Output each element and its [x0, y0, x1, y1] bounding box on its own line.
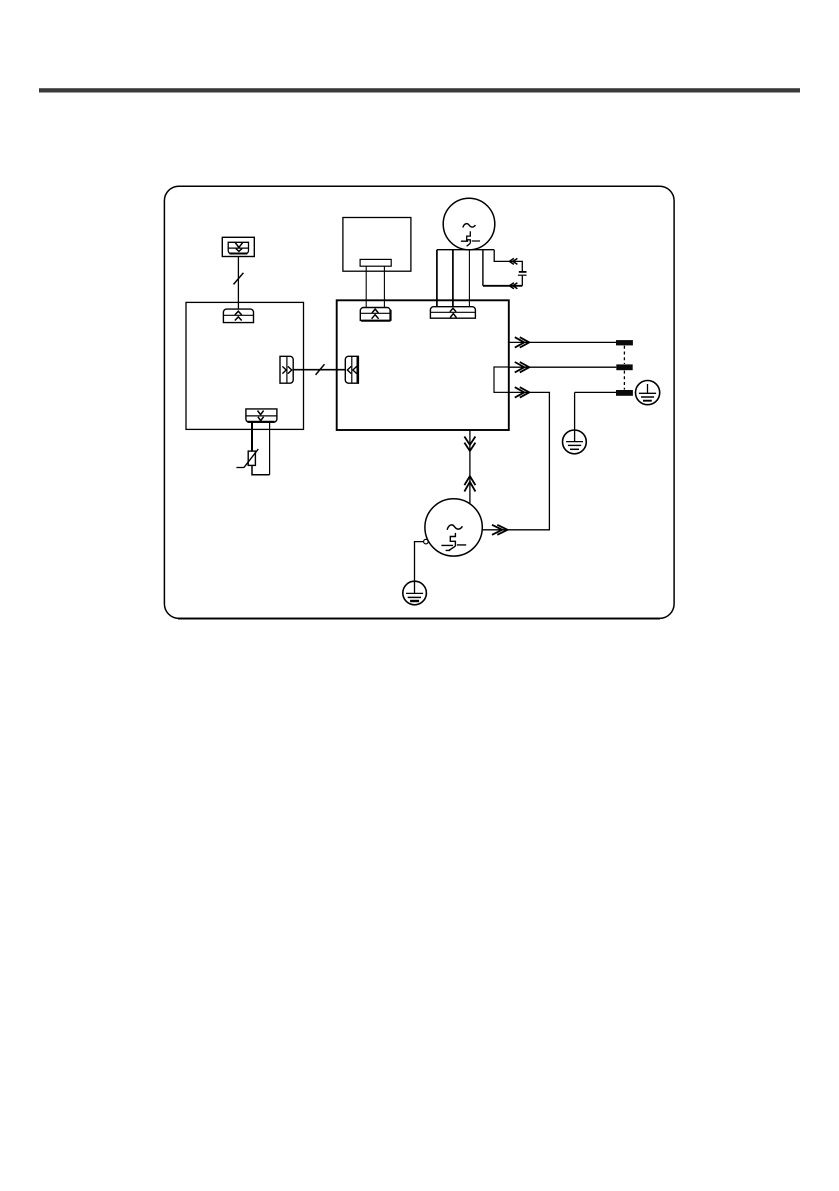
connector CN-B (indoor unit top) — [223, 309, 253, 323]
connector arrows L2 — [515, 362, 530, 372]
display unit box — [343, 218, 411, 272]
connector CN-E (indoor unit right) — [280, 356, 293, 383]
cable break slash — [234, 273, 244, 285]
fan motor M2 — [425, 499, 482, 556]
connector arrows cap top — [509, 258, 517, 264]
terminal L1 — [616, 340, 633, 345]
protective earth at terminal block — [636, 381, 660, 405]
connector arrows M2 output — [492, 525, 508, 535]
wire CN-E to CN-F — [293, 369, 345, 371]
terminal strip dashed link — [623, 346, 625, 390]
terminal L3 — [616, 390, 633, 396]
display unit connector tab — [360, 259, 391, 266]
protective earth motor M2 — [403, 581, 427, 605]
wire TH1 loop bottom — [252, 465, 270, 474]
thermistor TH1 — [236, 449, 258, 468]
indoor unit enclosure box — [186, 302, 304, 429]
connector CN-M1 — [430, 307, 475, 319]
connector CN-F (board left) — [345, 356, 358, 383]
connector CN-A plug (top-left) — [222, 237, 254, 256]
cable break slash — [316, 364, 325, 375]
fan motor M1 — [443, 198, 495, 250]
wire CN-TH left lead — [251, 422, 253, 451]
M2 earth terminal — [424, 539, 429, 544]
control board box — [337, 300, 509, 430]
motor M1 leads — [436, 250, 438, 307]
wire L1 — [509, 341, 616, 343]
wire M1 to capacitor (top branch) — [494, 250, 522, 272]
wire display to CN-DISP (2 leads) — [366, 266, 384, 307]
terminal L2 — [616, 364, 632, 370]
protective earth mid — [563, 430, 587, 454]
wire CN-TH right lead — [269, 422, 271, 475]
capacitor C1 — [518, 272, 527, 275]
wire earth node to terminal L3 — [575, 392, 616, 441]
connector arrows up — [464, 476, 475, 491]
connector arrows down — [464, 437, 475, 452]
connector CN-TH (indoor unit bottom) — [246, 409, 277, 422]
wire L3 to motor M2 — [482, 392, 549, 529]
relay block on board edge — [494, 367, 509, 392]
connector CN-DISP — [360, 307, 390, 320]
connector arrows cap bottom — [509, 283, 517, 289]
motor M1 lead bus — [437, 249, 494, 251]
connector arrows L3 — [515, 387, 530, 397]
wire L2 — [509, 366, 617, 368]
connector arrows L1 — [515, 337, 530, 347]
wire M2 to earth — [415, 542, 424, 594]
wire capacitor bottom branch — [521, 276, 523, 286]
wire CN-A to CN-B — [237, 257, 239, 310]
wire board to M2 — [469, 430, 471, 503]
